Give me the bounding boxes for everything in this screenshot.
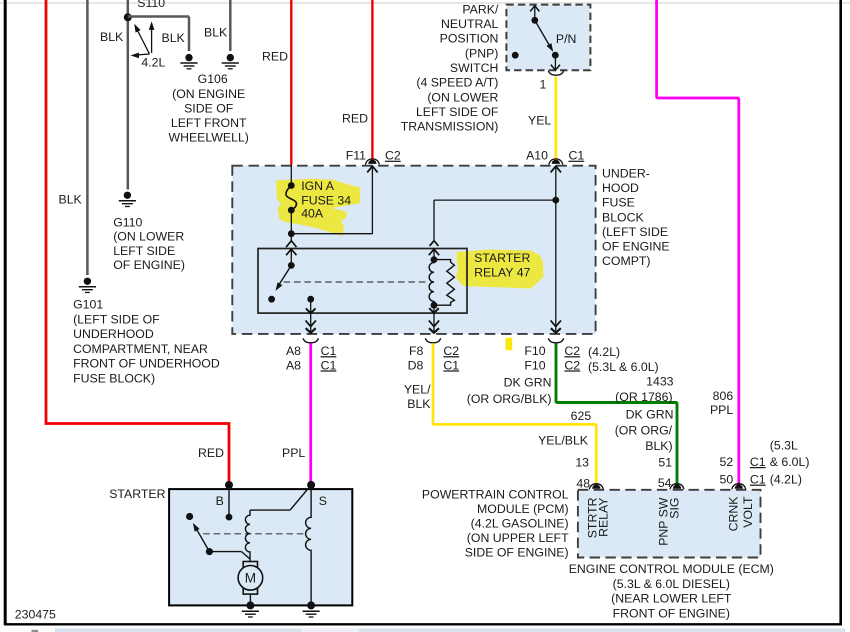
svg-text:52: 52 <box>720 455 734 469</box>
svg-text:(ON LOWER: (ON LOWER <box>427 90 498 104</box>
label PARK/NEUTRAL POSITION SWITCH <box>401 2 499 133</box>
svg-text:F11: F11 <box>346 149 366 163</box>
svg-text:C1: C1 <box>750 455 766 469</box>
connector F10 C2 arc <box>548 338 564 342</box>
label YEL/BLK (at PCM) <box>538 433 589 447</box>
svg-text:(LEFT SIDE OF: (LEFT SIDE OF <box>73 312 160 326</box>
wire BLK S110 to G110 <box>127 0 130 190</box>
starter motor ground <box>242 601 259 617</box>
svg-text:FUSE BLOCK): FUSE BLOCK) <box>73 371 155 385</box>
label POWERTRAIN CONTROL MODULE <box>422 488 569 560</box>
connector A8 C1 arc <box>303 338 319 342</box>
connector A10 C1 dome <box>549 159 563 165</box>
connector dome PCM pin 54 <box>670 484 684 490</box>
svg-text:TRANSMISSION): TRANSMISSION) <box>401 120 499 134</box>
svg-text:54: 54 <box>658 476 672 490</box>
relay output arrow <box>306 299 316 313</box>
page bottom border <box>4 623 842 625</box>
svg-text:48: 48 <box>576 477 590 491</box>
svg-text:A8: A8 <box>286 358 301 372</box>
svg-text:ENGINE CONTROL MODULE (ECM): ENGINE CONTROL MODULE (ECM) <box>569 562 774 576</box>
svg-text:(NEAR LOWER LEFT: (NEAR LOWER LEFT <box>611 592 732 606</box>
label G110 <box>113 216 185 272</box>
PNP switch park contact dot <box>512 52 519 59</box>
label pin 1 <box>539 77 546 91</box>
svg-text:FUSE 34: FUSE 34 <box>301 194 351 208</box>
svg-text:F10: F10 <box>524 358 545 372</box>
svg-text:WHEELWELL): WHEELWELL) <box>168 131 248 145</box>
wire RED to F11 <box>371 0 373 160</box>
wire BLK S110 to G106 left <box>128 17 189 52</box>
relay 47 box <box>258 249 467 314</box>
4.2L splice pointer arrows <box>131 21 166 69</box>
label 48 <box>576 477 590 491</box>
right page border wire <box>839 0 842 625</box>
svg-text:FUSE: FUSE <box>602 196 635 210</box>
connector F8 C2 arc <box>425 338 441 342</box>
wire BLK to G101 <box>86 0 89 275</box>
splice S110 dot <box>124 13 132 21</box>
wire fuse output to F11 <box>291 166 377 234</box>
motor M <box>238 562 263 595</box>
connector F11 C2 dome <box>365 159 379 165</box>
svg-text:(5.3L: (5.3L <box>770 439 798 453</box>
relay switch contact dot <box>268 296 275 303</box>
svg-text:VOLT: VOLT <box>741 496 755 528</box>
relay switch input arrow <box>286 249 296 265</box>
svg-text:COMPARTMENT, NEAR: COMPARTMENT, NEAR <box>73 342 208 356</box>
wire fuse to relay connector <box>286 234 296 247</box>
svg-text:625: 625 <box>571 409 592 423</box>
label F10 C2 rows <box>524 344 658 374</box>
wire YEL pin1 to A10 <box>554 77 557 161</box>
label BLK (G106 right wire) <box>204 26 228 40</box>
relay coil resistor <box>434 260 454 306</box>
svg-text:SIDE OF: SIDE OF <box>184 101 234 115</box>
svg-text:LEFT SIDE OF: LEFT SIDE OF <box>416 105 499 119</box>
svg-text:1: 1 <box>539 77 546 91</box>
wire B terminal stub <box>226 485 233 520</box>
wire S to pull-in coil <box>250 485 311 510</box>
label BLK (S110 wire) <box>100 30 124 44</box>
svg-text:LEFT SIDE: LEFT SIDE <box>113 244 175 258</box>
svg-text:C1: C1 <box>321 358 337 372</box>
starter solenoid ground <box>303 601 320 617</box>
svg-text:M: M <box>245 571 256 586</box>
label A8 C1 rows <box>286 344 337 372</box>
svg-text:HOOD: HOOD <box>602 181 639 195</box>
svg-text:(5.3L & 6.0L): (5.3L & 6.0L) <box>588 360 659 374</box>
starter pull-in coil <box>245 510 250 561</box>
label STARTER <box>109 487 165 501</box>
wire A10 into block <box>551 166 561 332</box>
PNP switch blade <box>535 20 553 52</box>
page number 230475 <box>15 608 56 622</box>
label G101 <box>73 298 220 386</box>
fuse 34 element <box>286 182 296 237</box>
svg-text:D8: D8 <box>408 358 424 372</box>
label 51 <box>658 456 672 470</box>
relay coil output arrow <box>429 305 439 313</box>
label DK GRN (at PCM) <box>615 408 674 454</box>
svg-text:G106: G106 <box>198 72 228 86</box>
svg-text:C1: C1 <box>750 473 766 487</box>
left page border wire <box>4 0 7 625</box>
svg-text:A10: A10 <box>526 149 548 163</box>
svg-text:51: 51 <box>658 456 672 470</box>
PNP pin 1 connector arc <box>548 71 564 75</box>
page top hairline <box>0 2 850 4</box>
relay actuation dashed line <box>284 281 428 283</box>
label RED (F11 wire) <box>342 111 368 125</box>
svg-text:(5.3L & 6.0L DIESEL): (5.3L & 6.0L DIESEL) <box>613 577 730 591</box>
wire PPL crank voltage to PCM <box>657 0 739 485</box>
label 52 C1 (5.3L & 6.0L) <box>720 439 810 469</box>
svg-text:BLK): BLK) <box>645 439 672 453</box>
svg-text:(PNP): (PNP) <box>465 46 498 60</box>
svg-text:F10: F10 <box>524 344 545 358</box>
svg-text:BLK: BLK <box>100 30 124 44</box>
svg-text:& 6.0L): & 6.0L) <box>770 455 810 469</box>
label 50 C1 (4.2L) <box>720 473 802 487</box>
svg-text:LEFT FRONT: LEFT FRONT <box>171 116 247 130</box>
svg-text:YEL/: YEL/ <box>404 382 431 396</box>
svg-text:G110: G110 <box>113 216 142 230</box>
svg-text:UNDERHOOD: UNDERHOOD <box>73 327 154 341</box>
wire A10 to relay coil <box>430 200 556 246</box>
highlight STARTER RELAY 47 <box>456 250 544 289</box>
svg-text:DK GRN: DK GRN <box>626 408 674 422</box>
svg-text:(ON UPPER LEFT: (ON UPPER LEFT <box>467 531 569 545</box>
svg-text:YEL/BLK: YEL/BLK <box>538 433 589 447</box>
ground G106 right <box>222 54 239 69</box>
starter blade link <box>209 552 250 559</box>
wire fuse input <box>290 165 292 186</box>
svg-text:F8: F8 <box>409 344 424 358</box>
svg-text:S110: S110 <box>137 0 165 10</box>
svg-text:1433: 1433 <box>646 375 674 389</box>
svg-text:4.2L: 4.2L <box>141 55 165 69</box>
svg-text:CRNK: CRNK <box>727 496 741 532</box>
svg-text:C2: C2 <box>385 149 401 163</box>
label S <box>319 494 327 508</box>
svg-text:UNDER-: UNDER- <box>602 166 650 180</box>
label YEL <box>528 113 551 127</box>
wire A10 bottom exit chevrons <box>551 320 561 332</box>
svg-text:C1: C1 <box>569 149 585 163</box>
svg-text:C2: C2 <box>564 344 580 358</box>
svg-text:RELAY 47: RELAY 47 <box>474 266 530 280</box>
svg-text:IGN A: IGN A <box>301 179 335 193</box>
svg-text:MODULE (PCM): MODULE (PCM) <box>477 502 569 516</box>
connector dome PCM pin 48 <box>589 484 603 490</box>
label B <box>216 494 224 508</box>
svg-text:STARTER: STARTER <box>109 487 165 501</box>
svg-text:(4.2L): (4.2L) <box>770 473 802 487</box>
svg-text:NEUTRAL: NEUTRAL <box>441 17 499 31</box>
svg-text:FRONT OF UNDERHOOD: FRONT OF UNDERHOOD <box>73 357 220 371</box>
svg-text:(4.2L): (4.2L) <box>588 345 620 359</box>
svg-text:40A: 40A <box>301 207 324 221</box>
svg-text:PPL: PPL <box>710 403 733 417</box>
label STARTER RELAY 47 <box>474 251 530 280</box>
svg-text:B: B <box>216 494 224 508</box>
svg-text:(OR ORG/: (OR ORG/ <box>615 423 673 437</box>
starter solenoid blade <box>193 523 210 552</box>
highlight IGN A fuse <box>276 179 360 236</box>
svg-text:SIG: SIG <box>668 498 682 519</box>
label CRNK VOLT (rotated) <box>727 496 755 532</box>
label P/N <box>556 32 577 46</box>
ground G110 <box>119 192 136 207</box>
svg-text:(LEFT SIDE: (LEFT SIDE <box>602 225 668 239</box>
svg-text:STARTER: STARTER <box>474 251 530 265</box>
starter hold-in coil <box>306 485 311 605</box>
label BLK (G106 left wire) <box>162 31 186 45</box>
relay coil input arrow <box>429 249 439 259</box>
label RED (feed) <box>262 49 288 63</box>
svg-text:POSITION: POSITION <box>440 32 499 46</box>
label PPL <box>282 446 305 460</box>
svg-text:806: 806 <box>713 389 734 403</box>
PNP switch pivot dot <box>531 17 538 24</box>
svg-text:C1: C1 <box>321 344 337 358</box>
svg-text:(ON LOWER: (ON LOWER <box>113 230 184 244</box>
svg-text:PARK/: PARK/ <box>462 2 499 16</box>
relay output dot <box>307 296 314 303</box>
label YEL/BLK (at F8) <box>404 382 431 411</box>
wire RED to fuse 34 <box>290 0 292 165</box>
svg-text:G101: G101 <box>73 298 103 312</box>
svg-text:POWERTRAIN CONTROL: POWERTRAIN CONTROL <box>422 488 569 502</box>
svg-text:DK GRN: DK GRN <box>504 375 552 389</box>
svg-text:OF ENGINE: OF ENGINE <box>602 240 670 254</box>
svg-text:(ON ENGINE: (ON ENGINE <box>172 87 245 101</box>
label RED (at starter) <box>198 446 224 460</box>
label BLK (G101 wire) <box>59 193 83 207</box>
ground G106 left <box>180 54 197 69</box>
ground G101 <box>79 278 96 293</box>
svg-text:C2: C2 <box>564 358 580 372</box>
starter solenoid pivot dot <box>206 548 213 555</box>
label PNP SW SIG (rotated) <box>656 497 681 546</box>
PNP output to pin 1 <box>551 55 560 70</box>
svg-text:RED: RED <box>342 111 368 125</box>
connector dome PCM pin 50 <box>732 484 746 490</box>
wire YEL/BLK F8 to PCM <box>433 343 596 485</box>
svg-text:13: 13 <box>575 456 589 470</box>
wire RED battery feed to starter B <box>46 0 229 485</box>
label F8 C2 / D8 C1 rows <box>408 344 460 372</box>
label A10 <box>526 149 548 163</box>
starter B terminal dot <box>225 481 233 489</box>
bottom scrollbar track <box>32 628 846 632</box>
label F11 <box>346 149 366 163</box>
svg-text:PPL: PPL <box>282 446 305 460</box>
svg-text:(OR 1786): (OR 1786) <box>615 390 672 404</box>
svg-text:(OR ORG/BLK): (OR ORG/BLK) <box>467 392 552 406</box>
svg-text:FRONT OF ENGINE): FRONT OF ENGINE) <box>613 606 730 620</box>
svg-text:S: S <box>319 494 327 508</box>
PCM ECM module box <box>578 490 761 558</box>
wire relay A8 exit chevrons <box>306 313 316 333</box>
starter solenoid contact dot <box>186 513 193 520</box>
relay switch pivot dot <box>288 262 295 269</box>
svg-text:(4.2L GASOLINE): (4.2L GASOLINE) <box>471 517 569 531</box>
highlight leftover stub <box>506 338 513 350</box>
svg-text:230475: 230475 <box>15 608 56 622</box>
svg-text:(4 SPEED A/T): (4 SPEED A/T) <box>416 76 498 90</box>
label UNDERHOOD FUSE BLOCK <box>602 166 670 268</box>
svg-text:BLK: BLK <box>162 31 186 45</box>
svg-text:YEL: YEL <box>528 113 551 127</box>
label DK GRN (at F10) <box>467 375 552 406</box>
wire relay F8 exit chevrons <box>429 313 439 333</box>
svg-text:RELAY: RELAY <box>596 498 610 537</box>
svg-text:BLK: BLK <box>59 193 83 207</box>
starter box <box>169 489 352 605</box>
svg-text:C2: C2 <box>443 344 459 358</box>
svg-text:BLOCK: BLOCK <box>602 210 644 224</box>
svg-text:BLK: BLK <box>204 26 228 40</box>
label 13 <box>575 456 589 470</box>
svg-text:RED: RED <box>198 446 224 460</box>
label S110 <box>137 0 165 10</box>
svg-text:RED: RED <box>262 49 288 63</box>
label G106 <box>168 72 248 144</box>
label ENGINE CONTROL MODULE <box>569 562 774 620</box>
relay coil <box>429 256 437 308</box>
wire motor to ground <box>249 594 251 605</box>
svg-text:BLK: BLK <box>407 397 431 411</box>
relay switch blade <box>276 265 292 291</box>
svg-text:SIDE OF ENGINE): SIDE OF ENGINE) <box>465 546 569 560</box>
label 1433 (OR 1786) <box>615 375 673 405</box>
label 625 <box>571 409 592 423</box>
label 54 <box>658 476 672 490</box>
svg-text:P/N: P/N <box>556 32 577 46</box>
label C1 (A10) <box>569 149 585 163</box>
svg-text:50: 50 <box>720 473 734 487</box>
starter S terminal dot <box>307 481 315 489</box>
wire PPL A8 to starter S <box>309 343 312 485</box>
PNP switch box <box>506 5 590 71</box>
svg-text:COMPT): COMPT) <box>602 254 651 268</box>
svg-text:OF ENGINE): OF ENGINE) <box>113 258 185 272</box>
wire DK GRN F10 to PCM <box>556 343 677 485</box>
underhood fuse block box <box>232 166 595 334</box>
label STRTR RELAY (rotated) <box>585 497 610 538</box>
svg-text:C1: C1 <box>443 358 459 372</box>
wire BLK to G106 right <box>229 0 232 51</box>
label 806 PPL <box>710 389 733 417</box>
starter dashed actuation line <box>203 533 306 535</box>
label IGN A FUSE 34 40A <box>301 179 351 221</box>
svg-text:SWITCH: SWITCH <box>450 61 499 75</box>
PNP switch common arrow up <box>530 6 539 20</box>
PNP switch P/N contact dot <box>552 52 559 59</box>
svg-text:A8: A8 <box>286 344 301 358</box>
junction dot relay coil feed <box>552 197 559 204</box>
label C2 (F11) <box>385 149 401 163</box>
